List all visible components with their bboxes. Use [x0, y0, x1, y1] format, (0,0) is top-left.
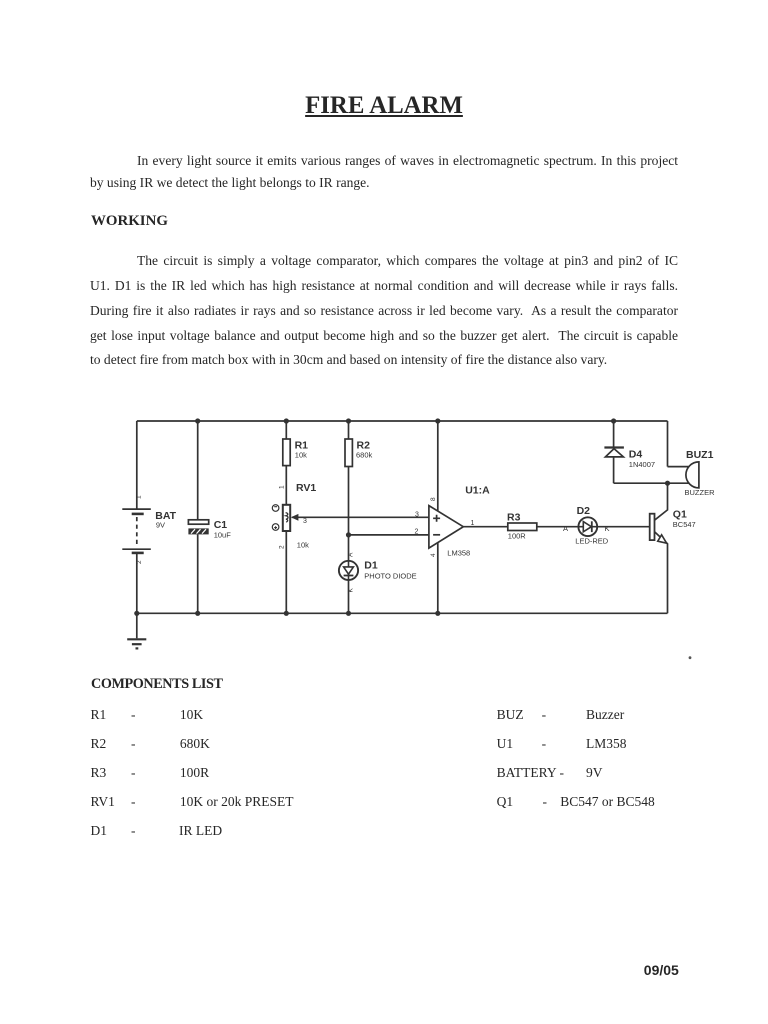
svg-text:BUZ1: BUZ1 — [686, 449, 714, 461]
svg-text:10k: 10k — [295, 451, 307, 460]
svg-text:1: 1 — [136, 495, 143, 499]
svg-text:LM358: LM358 — [447, 549, 470, 558]
svg-text:100R: 100R — [508, 532, 527, 541]
svg-text:2: 2 — [415, 529, 419, 536]
svg-text:RV1: RV1 — [296, 482, 316, 494]
svg-text:9V: 9V — [156, 521, 165, 530]
svg-text:1: 1 — [471, 520, 475, 527]
svg-text:D2: D2 — [577, 505, 591, 517]
svg-text:R3: R3 — [507, 512, 521, 524]
svg-text:A: A — [563, 524, 568, 533]
svg-text:3: 3 — [303, 518, 307, 525]
svg-text:D1: D1 — [364, 560, 378, 572]
svg-text:PHOTO DIODE: PHOTO DIODE — [364, 572, 416, 581]
svg-text:3: 3 — [415, 512, 419, 519]
svg-text:10k: 10k — [297, 541, 309, 550]
svg-text:1N4007: 1N4007 — [629, 460, 655, 469]
svg-text:8: 8 — [430, 497, 437, 501]
svg-text:LED-RED: LED-RED — [575, 537, 609, 546]
svg-text:BC547: BC547 — [673, 520, 696, 529]
svg-text:K: K — [348, 588, 355, 593]
svg-text:10uF: 10uF — [214, 531, 232, 540]
svg-text:1: 1 — [279, 485, 286, 489]
svg-text:U1:A: U1:A — [465, 485, 490, 497]
svg-text:4: 4 — [430, 553, 437, 557]
svg-text:2: 2 — [279, 545, 286, 549]
svg-text:2: 2 — [136, 560, 143, 564]
svg-text:C1: C1 — [214, 519, 228, 531]
svg-text:Q1: Q1 — [673, 509, 687, 521]
svg-text:680k: 680k — [356, 451, 373, 460]
svg-text:BUZZER: BUZZER — [685, 488, 716, 497]
svg-text:D4: D4 — [629, 449, 643, 461]
svg-text:A: A — [348, 552, 355, 557]
svg-text:K: K — [605, 524, 610, 533]
